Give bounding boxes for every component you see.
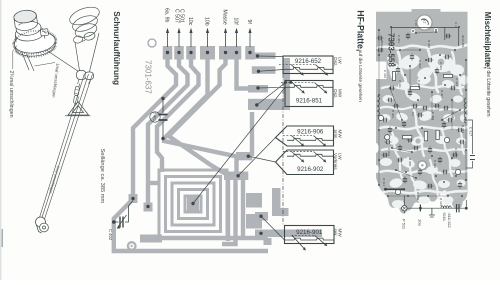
conical spring coil: [67, 4, 101, 40]
svg-text:Osz.: Osz.: [333, 89, 338, 98]
svg-text:10c: 10c: [187, 17, 193, 26]
svg-text:prim: prim: [333, 130, 338, 139]
svg-text:7303-558: 7303-558: [387, 33, 396, 67]
svg-text:C 402: C 402: [108, 229, 113, 241]
grey islands inside white areas: [438, 59, 445, 66]
trimmer C402: [114, 201, 133, 223]
coil 9216-801 right edge: [464, 98, 466, 123]
svg-text:10a: 10a: [417, 219, 422, 226]
svg-text:6a, 9b: 6a, 9b: [163, 8, 169, 23]
board notch left edge: [376, 62, 387, 80]
svg-text:R 308: R 308: [408, 158, 412, 166]
svg-text:-611/-622: -611/-622: [447, 213, 451, 228]
pad dots: [131, 51, 262, 235]
page edge tick: [1, 229, 3, 247]
svg-text:10f: 10f: [232, 18, 238, 26]
svg-text:Vorkreis: Vorkreis: [333, 153, 338, 170]
svg-text:C 317: C 317: [468, 127, 472, 136]
svg-text:C 316: C 316: [455, 78, 459, 86]
capacitor C401: [162, 99, 164, 138]
svg-text:HF-Platte,: HF-Platte,: [355, 10, 365, 51]
svg-text:C 507: C 507: [173, 9, 179, 23]
connection lines pads to boxes: [193, 56, 286, 240]
svg-text:9f: 9f: [246, 20, 252, 25]
cord from drum to carriage pulley: [46, 50, 79, 72]
svg-text:auf die Lötseite gesehen: auf die Lötseite gesehen: [485, 62, 491, 117]
svg-text:9216-901: 9216-901: [296, 229, 323, 236]
svg-text:P 511: P 511: [401, 219, 406, 230]
printed spiral coil: [159, 170, 227, 238]
svg-text:C 302: C 302: [433, 160, 437, 168]
page left edge shading: [0, 0, 2, 280]
board white channels: [378, 45, 467, 199]
ferrite bar component bottom-left of board: [386, 188, 405, 190]
svg-text:Osz.: Osz.: [333, 57, 338, 66]
cord tails from drum: [22, 52, 35, 72]
svg-text:C 308: C 308: [431, 112, 435, 120]
svg-text:9216-: 9216-: [442, 213, 446, 223]
svg-text:C 304: C 304: [418, 60, 422, 68]
pads on shield line: [411, 29, 415, 33]
resistors on mixer board: [402, 136, 411, 139]
shield can outline: [391, 27, 458, 46]
svg-text:10b: 10b: [203, 17, 209, 26]
carriage pulleys: [77, 71, 94, 85]
capacitor below board right: [457, 204, 460, 212]
mounting hole bottom-left: [128, 242, 136, 250]
svg-text:0,1: 0,1: [411, 112, 415, 117]
board white patches: [380, 52, 469, 208]
Mischteilplatte board base: [376, 9, 468, 211]
svg-text:C 311: C 311: [398, 80, 402, 88]
svg-text:KT: KT: [422, 20, 426, 24]
triangle bracket: [68, 102, 89, 116]
svg-text:R 307: R 307: [440, 90, 444, 98]
label 1mal umschlingen near drum: [35, 63, 56, 67]
coil left edge: [378, 96, 380, 116]
coil box 9216-906 MW prim: [276, 126, 334, 146]
svg-text:9216-801: 9216-801: [461, 35, 465, 48]
board legs bottom: [399, 201, 408, 214]
svg-text:L 30: L 30: [414, 20, 418, 26]
dash-dot gang line: [282, 66, 284, 225]
svg-text:C 3: C 3: [454, 22, 458, 27]
svg-text:R 311: R 311: [451, 112, 455, 120]
bottom pulley hook: [36, 217, 49, 233]
ground symbol: [429, 208, 435, 217]
svg-text:C 313: C 313: [461, 125, 465, 133]
coil box 9216-851 MW Osz: [285, 81, 333, 107]
coil box 9216-901 MW sek: [285, 226, 335, 244]
hole top-left HF board: [148, 39, 156, 47]
HF top pads: [163, 46, 173, 60]
svg-text:9216-906: 9216-906: [297, 129, 324, 136]
coil box 9216-652 LW Osz: [283, 56, 333, 74]
svg-text:C 317: C 317: [454, 148, 458, 156]
coil box 9216-902 LW Vorkreis: [276, 150, 334, 175]
stub to spiral left: [148, 181, 159, 185]
svg-text:C 310: C 310: [383, 70, 387, 78]
svg-text:Seillänge ca. 385 mm: Seillänge ca. 385 mm: [99, 149, 105, 204]
board hole with ring top: [417, 15, 432, 30]
coil 9216-611/-622: [441, 206, 451, 208]
thin wires on mixer board: [379, 30, 466, 196]
svg-text:Masse: Masse: [221, 10, 227, 25]
svg-text:9216-801: 9216-801: [380, 40, 384, 53]
pointer funnel cone: [75, 33, 99, 72]
svg-text:R 302: R 302: [427, 40, 431, 48]
svg-text:7301-637: 7301-637: [144, 60, 153, 94]
gear teeth: [12, 30, 57, 58]
solder dots: [378, 26, 467, 209]
svg-text:C 314: C 314: [387, 148, 391, 156]
svg-text:C 401: C 401: [153, 112, 157, 121]
HF board grey traces: [114, 50, 268, 251]
small capacitors on mixer board: [377, 36, 384, 40]
svg-text:R 304: R 304: [391, 110, 395, 118]
label 2 3/4mal umschlingen with leader: [13, 46, 17, 70]
svg-text:C 320: C 320: [416, 192, 420, 200]
svg-text:9216-652: 9216-652: [295, 58, 322, 65]
board hole with ring bottom: [418, 161, 427, 170]
svg-text:sek.: sek.: [333, 229, 338, 237]
spring end hook: [73, 31, 96, 44]
svg-text:2¾mal umschlingen: 2¾mal umschlingen: [8, 71, 14, 118]
pointer rod tapered: [40, 74, 93, 221]
external capacitor C317 right side: [467, 120, 473, 168]
left edge bites: [373, 143, 379, 153]
transistors on mixer board: [385, 135, 390, 140]
pin 10a: [419, 205, 421, 212]
HF right pads: [248, 53, 276, 60]
svg-text:Mischteilplatte,: Mischteilplatte,: [483, 12, 492, 69]
svg-text:9216-902: 9216-902: [297, 166, 324, 173]
svg-text:Schnurlaufführung: Schnurlaufführung: [112, 11, 121, 85]
svg-text:C 306: C 306: [417, 80, 421, 88]
svg-text:C 303: C 303: [439, 62, 443, 70]
top connection arrows: [168, 31, 251, 47]
svg-text:R 318: R 318: [439, 198, 443, 206]
svg-text:R 314: R 314: [382, 178, 386, 186]
circuit below board: [404, 196, 466, 214]
svg-text:C 301: C 301: [397, 35, 401, 43]
transistor P511: [402, 206, 407, 211]
svg-text:9216-851: 9216-851: [296, 98, 323, 105]
tuning drum with gear: [10, 7, 56, 58]
tension spring link: [73, 84, 79, 106]
svg-text:auf die Lötseite gesehen: auf die Lötseite gesehen: [357, 50, 363, 103]
